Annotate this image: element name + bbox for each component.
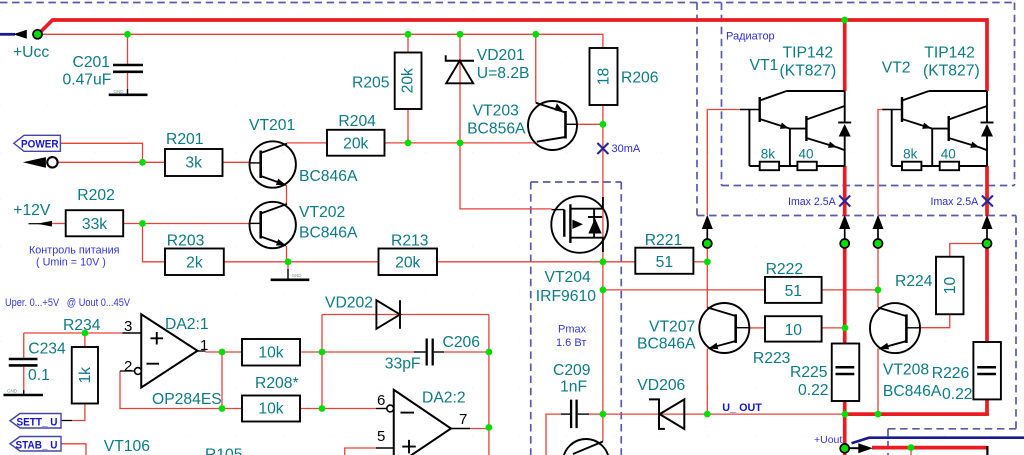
wire VT1 collector drop	[843, 20, 847, 91]
wire C201 branch	[127, 34, 129, 64]
capacitor C209 1nF	[570, 400, 572, 429]
arrow +12V input	[29, 223, 41, 225]
svg-text:R203: R203	[167, 233, 205, 250]
svg-text:Pmax: Pmax	[558, 324, 587, 336]
svg-text:C201: C201	[73, 54, 111, 71]
svg-text:VT208: VT208	[883, 362, 929, 379]
resistor R213	[379, 249, 438, 276]
svg-text:Контроль питания: Контроль питания	[29, 245, 120, 257]
wire +Uout bus right	[872, 446, 987, 450]
section arrows and connectors (x=845)	[839, 215, 850, 229]
capacitor C234 0.1	[9, 358, 38, 361]
wire VT1 base drive vertical	[707, 110, 740, 216]
wire VT2 emitter rail to R226	[985, 248, 989, 342]
op-amp DA2:1 OP284ES	[141, 314, 197, 387]
wire node B down past DA2:2 output	[488, 352, 490, 455]
wire R225 to output bus	[843, 401, 847, 414]
connector POWER (open circle with arrow)	[23, 157, 46, 168]
svg-text:POWER: POWER	[21, 139, 59, 151]
wire DA2:2 output pin7	[470, 428, 489, 430]
svg-text:0.1: 0.1	[28, 367, 50, 384]
section box: output section (dashed, right)	[697, 215, 1016, 217]
svg-text:R226: R226	[932, 365, 970, 382]
svg-text:3k: 3k	[185, 155, 202, 172]
wire VT204 source down to row G,H and U_OUT	[602, 262, 604, 414]
resistor R205 (vertical)	[395, 53, 422, 110]
svg-text:2k: 2k	[186, 254, 203, 271]
capacitor C201	[113, 64, 143, 67]
svg-text:GND: GND	[292, 273, 303, 278]
wire VT2 emitter down through Imax	[985, 166, 989, 216]
marker X Imax 2.5A (VT1)	[839, 196, 850, 207]
wire VD202/C206 node vertical x=322	[321, 315, 323, 409]
wire U_OUT row: node to VD206	[603, 413, 707, 415]
svg-text:VD206: VD206	[637, 377, 685, 394]
wire VT2 base drive vertical	[878, 110, 884, 216]
svg-text:7: 7	[459, 411, 467, 428]
svg-text:1.6 Вт: 1.6 Вт	[556, 337, 586, 349]
wire R208* 10k to DA2:2 pin6	[300, 408, 376, 410]
wire R205 top	[407, 34, 409, 52]
svg-text:51: 51	[785, 283, 802, 300]
lead black corner bottom right	[986, 446, 988, 455]
wire output node down to R208* node	[221, 352, 223, 409]
svg-text:VT106: VT106	[104, 438, 150, 455]
svg-text:VT2: VT2	[882, 60, 911, 77]
svg-text:TIP142: TIP142	[783, 45, 834, 62]
wire R224 top to VT2 emitter connector	[950, 244, 984, 257]
svg-text:R222: R222	[766, 261, 804, 278]
arrow +Ucc	[13, 30, 27, 39]
svg-text:5: 5	[377, 428, 385, 445]
section arrows and connectors (x=878)	[873, 215, 884, 229]
wire VD201 top	[459, 34, 461, 61]
svg-text:C234: C234	[28, 341, 66, 358]
svg-text:40: 40	[799, 147, 814, 162]
svg-text:Радиатор: Радиатор	[726, 31, 775, 43]
transistor VT201 BC846A	[250, 141, 296, 187]
svg-text:R201: R201	[166, 131, 204, 148]
svg-text:R213: R213	[391, 233, 429, 250]
darlington VT1 TIP142 (KT827)	[740, 109, 760, 111]
wire R206 bottom to VT203 base node	[602, 105, 604, 124]
marker X Imax 2.5A (VT2)	[982, 196, 993, 207]
wire R221 right to VT207 collector node	[693, 261, 707, 263]
svg-text:30mA: 30mA	[612, 143, 641, 155]
resistor R223	[765, 316, 822, 341]
svg-text:40: 40	[941, 147, 956, 162]
darlington VT2 TIP142 (KT827)	[882, 109, 902, 111]
svg-text:VT203: VT203	[473, 103, 519, 120]
connector +Ucc node	[33, 30, 42, 39]
svg-text:(KT827): (KT827)	[923, 63, 980, 80]
svg-text:U=8.2B: U=8.2B	[477, 65, 530, 82]
wire row R204-R205-VD201 (node)	[287, 142, 327, 144]
svg-text:+Ucc: +Ucc	[13, 44, 49, 61]
wire connector to R221 node	[706, 248, 708, 262]
svg-text:OP284ES: OP284ES	[152, 391, 222, 408]
svg-text:VD202: VD202	[325, 295, 373, 312]
svg-text:R208*: R208*	[255, 375, 299, 392]
svg-text:Uper. 0...+5V @ Uout 0...45V: Uper. 0...+5V @ Uout 0...45V	[5, 297, 131, 309]
svg-text:20k: 20k	[395, 254, 420, 271]
svg-text:R202: R202	[77, 187, 115, 204]
svg-text:GND: GND	[114, 89, 125, 94]
svg-text:Imax 2.5A: Imax 2.5A	[931, 196, 980, 208]
wire VT207 emitter to U_OUT line	[706, 349, 708, 415]
svg-text:U_ OUT: U_ OUT	[722, 402, 762, 414]
flag STAB_U	[10, 437, 61, 452]
svg-text:VT207: VT207	[649, 319, 695, 336]
wire output bus	[843, 412, 989, 416]
resistor R204	[327, 130, 385, 156]
svg-text:IRF9610: IRF9610	[536, 288, 596, 305]
wire POWER connector to R201 and VT201 base	[58, 161, 165, 163]
wire VT1 emitter down through Imax	[843, 166, 847, 216]
resistor R224 (vertical)	[936, 257, 964, 315]
wire output bus down to +Uout connector	[843, 414, 847, 444]
wire VT208 emitter down	[877, 349, 879, 415]
svg-text:10k: 10k	[258, 401, 283, 418]
wire R203 to VT202 emitter node to R213	[224, 261, 379, 263]
transistor VT203 BC856A (PNP)	[528, 101, 577, 150]
svg-text:VT1: VT1	[750, 57, 779, 74]
wire bottom output branch	[910, 448, 912, 455]
svg-text:1nF: 1nF	[560, 379, 587, 396]
svg-text:SETT_ U: SETT_ U	[17, 416, 58, 428]
svg-text:R105: R105	[205, 447, 243, 455]
wire R213 to VT204 drain node to R221	[437, 261, 635, 263]
svg-text:VT202: VT202	[299, 204, 345, 221]
svg-text:3: 3	[124, 318, 132, 335]
svg-text:10: 10	[942, 277, 959, 295]
svg-text:0.22: 0.22	[942, 386, 973, 403]
wire VT204 drain vertical (through 30mA marker)	[602, 124, 604, 261]
wire C209 to node	[589, 413, 603, 415]
wire VT below C209 collector	[602, 414, 604, 441]
zener diode VD206	[649, 399, 665, 429]
wire VD202 branch	[322, 314, 489, 316]
wire STAB_U flag down	[61, 444, 86, 455]
svg-text:+Uout: +Uout	[814, 434, 842, 446]
svg-text:Imax 2.5A: Imax 2.5A	[788, 196, 837, 208]
section arrows and connectors (x=707)	[702, 215, 713, 229]
svg-text:6: 6	[377, 392, 385, 409]
wire DA2:1 pin2 feedback to R208*	[120, 371, 242, 409]
diode VD202	[376, 300, 400, 329]
resistor R203	[165, 249, 224, 276]
wire 10k to C206 to node B	[300, 351, 414, 353]
svg-text:R221: R221	[645, 232, 683, 249]
svg-text:BC846A: BC846A	[299, 168, 358, 185]
shunt resistor R225 0.22	[832, 344, 860, 402]
svg-text:R206: R206	[621, 70, 659, 87]
ground for VT202 emitter	[287, 269, 289, 279]
wire U_OUT row to thick rail	[707, 413, 845, 415]
wire +Uout sense (navy)	[852, 438, 1024, 444]
wire VT208 base to R224	[920, 314, 950, 327]
svg-text:1k: 1k	[77, 367, 94, 384]
svg-text:VT201: VT201	[249, 117, 295, 134]
junction dots	[124, 31, 131, 38]
svg-text:C209: C209	[553, 362, 591, 379]
wire connector to VT208 collector node	[877, 248, 879, 290]
transistor VT207 BC846A	[699, 303, 749, 353]
svg-text:20k: 20k	[343, 135, 368, 152]
resistor R234 (vertical 1k)	[72, 347, 98, 404]
wire POWER flag to node	[60, 143, 142, 162]
svg-text:DA2:2: DA2:2	[422, 390, 466, 407]
svg-text:BC846A: BC846A	[299, 225, 358, 242]
transistor VT208 BC846A	[870, 303, 920, 353]
section box: power input (dashed, top-left)	[0, 2, 1015, 4]
svg-text:8k: 8k	[761, 147, 776, 162]
shunt resistor R226 0.22	[973, 342, 1001, 399]
wire R226 to output bus	[985, 399, 989, 416]
svg-text:R205: R205	[352, 75, 390, 92]
svg-text:0.22: 0.22	[798, 382, 829, 399]
transistor below C209 (cut at bottom)	[563, 439, 609, 455]
transistor VT202 BC846A	[250, 202, 296, 248]
svg-text:2: 2	[124, 358, 132, 375]
wire VT201 emitter to VT202 collector	[286, 185, 288, 204]
wire R202 node down to R203	[143, 224, 166, 262]
wire C234 - R234 - pin3 of DA2:1	[24, 332, 123, 334]
wire VT203 base to node	[577, 123, 603, 125]
wire VT202 emitter to ground node	[286, 246, 288, 262]
svg-text:(KT827): (KT827)	[780, 63, 837, 80]
zener diode VD201 U=8.2B	[446, 55, 474, 61]
capacitor C206 33pF	[426, 339, 428, 366]
wire VT1 emitter rail to R225	[843, 248, 847, 344]
svg-text:BC846A: BC846A	[637, 336, 696, 353]
arrow +Uout	[850, 447, 860, 449]
svg-text:8k: 8k	[903, 147, 918, 162]
section arrows and connectors (x=987)	[982, 215, 993, 229]
svg-text:GND: GND	[7, 389, 18, 394]
svg-text:R223: R223	[753, 350, 791, 367]
op-amp DA2:2	[394, 390, 451, 455]
svg-text:VD201: VD201	[477, 47, 525, 64]
svg-text:R224: R224	[895, 273, 933, 290]
svg-text:BC856A: BC856A	[467, 121, 526, 138]
resistor R221	[635, 248, 693, 274]
svg-text:VT204: VT204	[545, 269, 591, 286]
connector +Uout	[840, 444, 849, 453]
svg-text:BC846A: BC846A	[883, 383, 942, 400]
wire VD201 node down to VT204 gate	[460, 143, 552, 209]
wire R234 top	[84, 333, 86, 347]
wire +Ucc input (navy)	[0, 33, 15, 36]
wire R222 to VT208 collector node	[822, 289, 878, 291]
svg-text:1: 1	[200, 337, 208, 354]
wire VT203 emitter	[535, 34, 537, 103]
wire node to VT207 collector	[706, 262, 708, 308]
svg-text:DA2:1: DA2:1	[165, 316, 209, 333]
svg-text:18: 18	[596, 68, 613, 86]
wire R234 bottom to SETT_U flag	[72, 404, 85, 421]
svg-text:TIP142: TIP142	[924, 45, 975, 62]
flag SETT_U	[10, 414, 61, 429]
svg-text:C206: C206	[443, 334, 481, 351]
svg-text:+12V: +12V	[13, 202, 51, 219]
wire +Ucc rail (thin)	[38, 34, 603, 48]
wire +Ucc thick main rail	[41, 20, 988, 91]
svg-text:10: 10	[785, 322, 803, 339]
wire DA2:1 output row	[206, 351, 243, 353]
resistor R208* 10k (lower)	[242, 396, 300, 422]
ground for C201	[127, 89, 129, 94]
svg-text:R204: R204	[338, 113, 376, 130]
wire R205 bottom	[407, 109, 409, 143]
resistor R201	[165, 149, 223, 176]
svg-text:( Umin = 10V ): ( Umin = 10V )	[36, 257, 106, 269]
ground for C234	[23, 390, 25, 394]
wire DA2:2 pin5	[345, 448, 376, 455]
resistor R222	[765, 277, 822, 303]
resistor R206 (vertical)	[590, 48, 618, 105]
svg-text:33k: 33k	[82, 216, 107, 233]
wire C209 branch left	[546, 414, 561, 455]
wire +12V to R202 to VT202 base	[52, 223, 66, 225]
resistor 10k (upper)	[242, 339, 300, 366]
resistor R202	[66, 210, 124, 236]
svg-text:10k: 10k	[258, 345, 283, 362]
marker X 30mA	[597, 143, 608, 154]
flag POWER	[14, 135, 61, 151]
wire VD201 bottom	[459, 61, 461, 143]
svg-text:STAB_ U: STAB_ U	[16, 439, 58, 451]
MOSFET VT204 IRF9610	[551, 196, 608, 253]
wire R223 to thick rail	[750, 327, 765, 329]
svg-text:33pF: 33pF	[385, 356, 421, 373]
svg-text:R225: R225	[790, 364, 828, 381]
section box: VT204 power limit (dashed)	[530, 182, 532, 455]
section box: radiator (Радиатор)	[721, 3, 723, 186]
svg-text:51: 51	[656, 254, 673, 271]
wire row H: VT204 to R222	[603, 289, 765, 291]
svg-text:20k: 20k	[400, 68, 417, 93]
svg-text:0.47uF: 0.47uF	[63, 72, 112, 89]
